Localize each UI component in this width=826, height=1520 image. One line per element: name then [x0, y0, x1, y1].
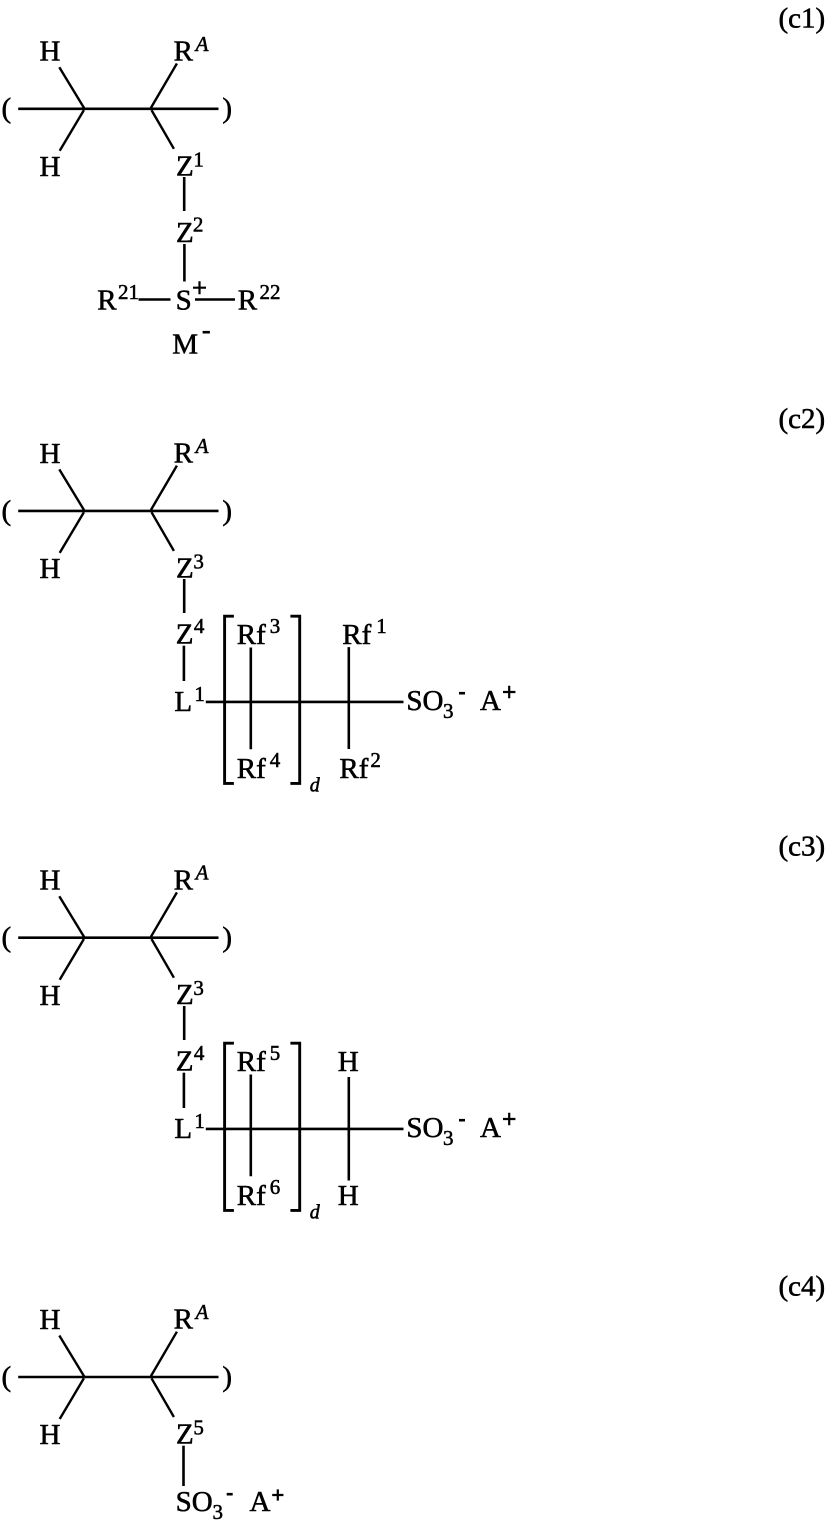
svg-text:d: d [310, 775, 321, 797]
svg-text:(c3): (c3) [779, 831, 826, 863]
svg-text:2: 2 [193, 213, 204, 237]
svg-text:(: ( [2, 93, 12, 125]
svg-text:R: R [174, 438, 194, 470]
svg-text:1: 1 [194, 1109, 205, 1133]
svg-text:H: H [338, 1046, 359, 1078]
c1 bond Z2-S [183, 244, 186, 282]
c2 horizontal chain bond L1 to SO3 [206, 701, 404, 704]
c1 bond C to R^A [151, 64, 177, 108]
svg-text:1: 1 [193, 147, 204, 171]
c2 charge plus on A [503, 686, 515, 698]
c1 bond CH2 to top H [59, 67, 84, 108]
svg-text:(c4): (c4) [779, 1271, 826, 1303]
svg-text:5: 5 [270, 1041, 281, 1065]
c2 vertical bond Rf3-C-Rf4 [250, 648, 253, 750]
c2 bond Z4-L1 [183, 646, 186, 681]
c1 bond C to Z1 [152, 110, 174, 149]
svg-text:A: A [480, 685, 501, 717]
svg-text:5: 5 [193, 1416, 204, 1440]
c1 bond Z1-Z2 [183, 177, 186, 211]
svg-text:4: 4 [194, 1041, 205, 1065]
svg-text:(: ( [2, 922, 12, 954]
c3 backbone C-C bond [18, 936, 218, 939]
svg-text:(: ( [2, 1361, 12, 1393]
svg-text:L: L [174, 686, 192, 718]
c2 vertical bond Rf1-C-Rf2 [347, 647, 350, 749]
svg-text:3: 3 [443, 1126, 454, 1150]
svg-text:A: A [194, 434, 209, 458]
c4 bond C to R^A [151, 1332, 177, 1376]
svg-text:6: 6 [270, 1175, 281, 1199]
c4 bond CH2 to top H [59, 1336, 84, 1377]
svg-text:R: R [174, 1304, 194, 1336]
svg-text:SO: SO [406, 1112, 443, 1144]
svg-text:Rf: Rf [237, 1180, 266, 1212]
svg-text:A: A [250, 1486, 271, 1518]
svg-text:H: H [40, 865, 61, 897]
svg-text:3: 3 [193, 976, 204, 1000]
c4 charge minus on SO3 [227, 1493, 233, 1496]
c3 bond C to R^A [151, 892, 177, 936]
svg-text:A: A [194, 32, 209, 56]
svg-text:Z: Z [176, 1419, 194, 1451]
c1 backbone C-C bond [18, 108, 218, 111]
svg-text:R: R [238, 285, 258, 317]
svg-text:H: H [40, 553, 61, 585]
svg-text:1: 1 [194, 682, 205, 706]
svg-text:H: H [338, 1180, 359, 1212]
svg-text:R: R [174, 864, 194, 896]
svg-text:A: A [480, 1112, 501, 1144]
svg-text:1: 1 [376, 614, 387, 638]
svg-text:H: H [40, 36, 61, 68]
svg-text:H: H [40, 1304, 61, 1336]
svg-text:R: R [174, 36, 194, 68]
svg-text:(c2): (c2) [779, 403, 826, 435]
svg-text:4: 4 [270, 748, 281, 772]
svg-text:H: H [40, 980, 61, 1012]
svg-text:L: L [174, 1113, 192, 1145]
svg-text:): ) [222, 495, 232, 527]
c1 charge minus on M [203, 331, 210, 334]
c2 bond C to R^A [151, 466, 177, 510]
svg-text:): ) [222, 1361, 232, 1393]
svg-text:d: d [310, 1202, 321, 1224]
svg-text:): ) [222, 93, 232, 125]
c2 right bracket [290, 616, 299, 783]
svg-text:SO: SO [176, 1486, 213, 1518]
svg-text:3: 3 [443, 699, 454, 723]
svg-text:): ) [222, 922, 232, 954]
c3 bond C to Z3 [152, 939, 174, 978]
c2 backbone C-C bond [18, 510, 218, 513]
svg-text:2: 2 [370, 748, 381, 772]
c3 vertical bond Rf5-C-Rf6 [250, 1075, 253, 1177]
c4 bond Z5-SO3 [182, 1446, 185, 1486]
c3 charge minus on SO3 [459, 1119, 465, 1122]
c1 bond CH2 to bottom H [60, 110, 84, 151]
svg-text:A: A [194, 861, 209, 885]
c3 bond Z4-L1 [183, 1073, 186, 1108]
c1 bond R21-S [139, 298, 171, 301]
c2 bond C to Z3 [152, 512, 174, 551]
c3 bond CH2 to top H [59, 896, 84, 937]
svg-text:M: M [172, 329, 198, 361]
c3 vertical bond H-C-H [347, 1077, 350, 1181]
svg-text:Rf: Rf [339, 753, 368, 785]
c3 bond Z3-Z4 [183, 1006, 186, 1040]
svg-text:H: H [40, 1419, 61, 1451]
svg-text:4: 4 [194, 614, 205, 638]
c1 bond S-R22 [195, 298, 235, 301]
c4 bond CH2 to bottom H [60, 1378, 84, 1419]
svg-text:A: A [194, 1300, 209, 1324]
svg-text:(: ( [2, 495, 12, 527]
svg-text:Rf: Rf [237, 619, 266, 651]
svg-text:(c1): (c1) [779, 2, 826, 34]
svg-text:H: H [40, 438, 61, 470]
c3 charge plus on A [503, 1113, 515, 1125]
svg-text:21: 21 [118, 280, 139, 304]
c1 charge plus on S [193, 281, 206, 294]
c2 left bracket [225, 616, 234, 783]
svg-text:Rf: Rf [237, 753, 266, 785]
svg-text:22: 22 [260, 280, 281, 304]
svg-text:Rf: Rf [237, 1046, 266, 1078]
c4 backbone C-C bond [18, 1376, 218, 1379]
c4 bond C to Z5 [152, 1378, 174, 1417]
svg-text:SO: SO [406, 685, 443, 717]
c2 bond CH2 to bottom H [60, 512, 84, 553]
c3 left bracket [225, 1043, 234, 1210]
c3 bond CH2 to bottom H [60, 939, 84, 980]
svg-text:H: H [40, 151, 61, 183]
c3 right bracket [290, 1043, 299, 1210]
svg-text:3: 3 [213, 1500, 224, 1520]
svg-text:3: 3 [270, 614, 281, 638]
svg-text:3: 3 [193, 549, 204, 573]
svg-text:S: S [176, 285, 192, 317]
c2 charge minus on SO3 [459, 692, 465, 695]
c2 bond CH2 to top H [59, 469, 84, 510]
svg-text:Rf: Rf [342, 619, 371, 651]
svg-text:R: R [97, 285, 117, 317]
c2 bond Z3-Z4 [183, 579, 186, 613]
c4 charge plus on A [272, 1489, 283, 1500]
c3 horizontal chain bond L1 to SO3 [206, 1128, 404, 1131]
